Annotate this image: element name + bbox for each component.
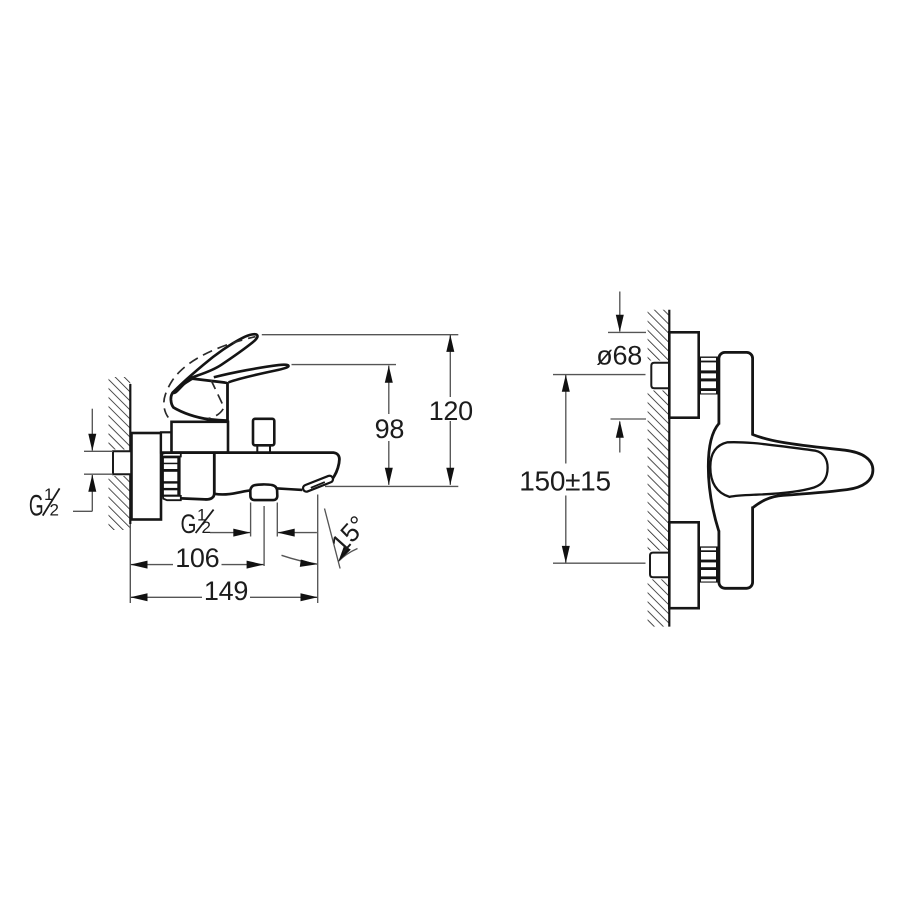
upper nut (right view, knurled) <box>699 357 718 395</box>
106 left <box>130 561 147 569</box>
small G half down <box>88 434 96 451</box>
shower outlet bump G1/2 <box>250 484 277 500</box>
150 up <box>562 375 570 392</box>
body block bottom <box>181 454 214 500</box>
small G half ext lines <box>84 450 113 452</box>
right view: o68 ext lines <box>608 331 646 333</box>
spout underside left of outlet <box>214 490 250 494</box>
lever horn (closed position) <box>214 365 289 383</box>
o68 stems <box>619 292 621 332</box>
wall line extension (dim 106/149) <box>129 524 131 603</box>
dim line 149 <box>130 596 202 598</box>
svg-text:G: G <box>181 509 197 539</box>
body edge covers for handle <box>716 425 722 531</box>
handle grip face inner contour <box>710 442 827 497</box>
label G half (outlet) <box>181 506 214 540</box>
G half pair tails <box>210 532 250 534</box>
outlet ext right <box>276 503 278 537</box>
ext line 120 top <box>262 334 459 336</box>
aerator capsule <box>302 475 334 493</box>
upper inlet pipe (right view) <box>651 363 669 389</box>
lower escutcheon (right view) <box>669 522 698 608</box>
G half pair left-pointing <box>278 529 295 537</box>
lever hidden outline (dashed, open position) <box>164 337 256 418</box>
ext line 98 top <box>292 364 397 366</box>
dim line 120 <box>449 335 451 397</box>
lever front face (pentagon) <box>171 379 228 421</box>
15 deg slanted line <box>325 509 341 569</box>
o68 down <box>616 315 624 332</box>
15 deg arc arrow at vertical line <box>300 560 318 567</box>
dim line 98 <box>388 366 390 414</box>
spout tip ext <box>317 495 319 604</box>
hex nut (left view, knurled) <box>162 453 181 500</box>
G half pair right-pointing <box>233 529 250 537</box>
svg-text:149: 149 <box>204 576 248 606</box>
wall surface line right <box>668 310 670 627</box>
svg-text:120: 120 <box>429 396 473 426</box>
upper escutcheon (right view) <box>669 332 698 417</box>
120 down <box>446 468 454 485</box>
small G half stems <box>91 409 93 451</box>
svg-text:106: 106 <box>175 543 219 573</box>
150 ext lines <box>553 374 646 376</box>
120 up <box>446 335 454 352</box>
15 deg arc left <box>282 555 318 564</box>
arrowheads <box>88 315 624 602</box>
body (right view) <box>719 352 753 588</box>
lower inlet pipe (right view) <box>650 553 669 578</box>
150 down <box>562 546 570 563</box>
wall hatch right <box>648 310 670 627</box>
knob neck <box>257 445 270 452</box>
svg-text:G: G <box>29 490 44 523</box>
spout underside right of outlet <box>277 488 302 490</box>
lower nut (right view, knurled) <box>699 546 718 582</box>
outlet centerline <box>263 506 265 566</box>
lever hidden edge (dashed diagonal) <box>208 380 224 419</box>
outlet ext left <box>250 503 252 537</box>
svg-text:2: 2 <box>202 518 211 537</box>
small G half up <box>88 475 96 492</box>
cartridge block <box>172 422 229 453</box>
ext line spout bottom <box>325 485 458 487</box>
149 right <box>301 593 318 601</box>
connector block <box>161 432 172 452</box>
o68 up <box>616 421 624 438</box>
body top edge + spout tip <box>161 453 339 480</box>
label G half (wall inlet) <box>29 485 60 523</box>
106 right <box>247 561 264 569</box>
dim line 150 <box>565 375 567 464</box>
wall surface line left <box>129 384 131 524</box>
149 left <box>130 593 147 601</box>
lever blade (raised) <box>173 334 258 393</box>
98 down <box>385 468 393 485</box>
diverter knob <box>253 419 274 446</box>
dim line 106 <box>130 564 173 566</box>
15 deg arc arrow at slanted line <box>338 546 351 562</box>
svg-text:150±15: 150±15 <box>519 466 610 497</box>
wall hatch left <box>109 377 131 530</box>
escutcheon (left view) <box>132 433 162 520</box>
15 deg arc right <box>339 549 358 562</box>
handle left bulge (body waist) <box>708 424 719 532</box>
svg-text:98: 98 <box>375 414 404 444</box>
dimension texts <box>175 341 642 606</box>
svg-text:ø68: ø68 <box>596 341 642 371</box>
inlet pipe (left view) <box>113 451 132 474</box>
aerator inner line <box>311 482 325 488</box>
handle outer silhouette <box>753 435 873 508</box>
98 up <box>385 366 393 383</box>
